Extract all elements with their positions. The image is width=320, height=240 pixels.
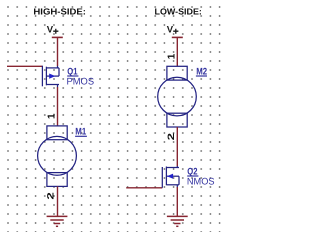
wire M2 to Q2 drain [176,127,178,166]
svg-text:1: 1 [47,113,58,119]
power V+ bar (left) [52,36,63,38]
ground (right) [167,216,188,226]
svg-text:LOW-SIDE:: LOW-SIDE: [155,7,202,17]
wire Q2 source to ground [176,187,178,216]
wire M1 to ground [57,186,59,216]
Q2 bulk arrow [167,174,173,179]
transistor Q1 PMOS [42,66,59,88]
power V+ bar (right) [172,36,183,38]
svg-text:PMOS: PMOS [67,76,95,87]
svg-text:NMOS: NMOS [187,176,215,187]
motor M2 [158,66,197,127]
wire Q1 gate [7,65,42,67]
svg-text:V: V [167,25,174,36]
svg-text:1: 1 [167,53,178,59]
svg-text:2: 2 [46,192,56,199]
wire Q2 gate [126,187,162,189]
svg-text:2: 2 [166,133,176,140]
ground (left) [47,216,68,226]
svg-text:V: V [47,25,54,36]
wire V+ to M2 [176,37,178,66]
wire V+ to Q1 drain [57,37,59,66]
svg-text:HIGH-SIDE:: HIGH-SIDE: [33,7,86,17]
motor M1 [38,126,77,187]
Q1 bulk arrow [49,74,55,79]
wire Q1 source to M1 [57,87,59,126]
transistor Q2 NMOS [162,166,179,188]
